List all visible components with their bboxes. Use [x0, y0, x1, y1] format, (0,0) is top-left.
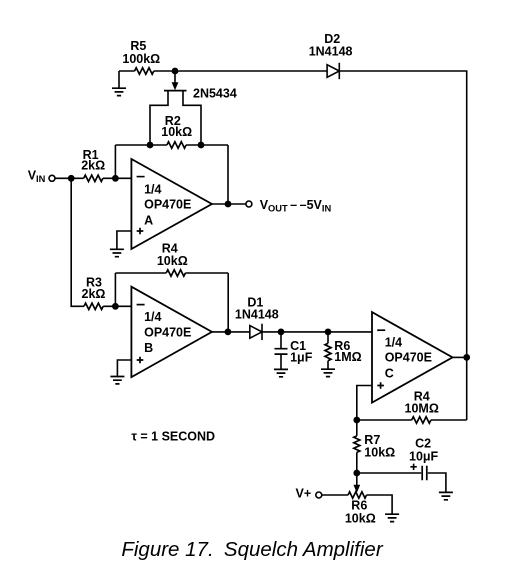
wire op-amp B noninverting input to ground	[117, 360, 131, 377]
ground C2	[439, 492, 453, 499]
svg-text:1N4148: 1N4148	[235, 307, 279, 321]
wire R7 node to C2	[357, 473, 446, 492]
svg-text:10μF: 10μF	[409, 450, 439, 464]
svg-text:100kΩ: 100kΩ	[122, 52, 160, 66]
wire R2 feedback line	[115, 145, 228, 204]
svg-text:10kΩ: 10kΩ	[157, 254, 188, 268]
svg-text:1N4148: 1N4148	[309, 44, 353, 58]
svg-text:τ = 1 SECOND: τ = 1 SECOND	[131, 429, 215, 443]
potentiometer R6 wiper arrow	[356, 473, 358, 486]
wire op-amp C output	[453, 356, 467, 358]
node top rail / gate junction	[172, 68, 179, 75]
resistor R3	[84, 303, 103, 309]
svg-text:OP470E: OP470E	[144, 325, 191, 339]
svg-text:R5: R5	[130, 39, 146, 53]
ground R6	[321, 369, 335, 376]
wire top rail from R5 to D2 and right side down to op-amp C output	[119, 71, 467, 357]
svg-text:VOUT – –5VIN: VOUT – –5VIN	[260, 198, 332, 214]
ground op-amp B	[110, 377, 124, 384]
node VIN branch	[68, 175, 75, 182]
node C1 top	[278, 329, 285, 336]
diode D1 1N4148	[250, 326, 262, 339]
node op-amp B inverting input	[112, 303, 119, 310]
svg-text:1/4: 1/4	[144, 310, 161, 324]
resistor R7 vertical	[356, 420, 358, 473]
ground pot	[385, 514, 399, 521]
node op-amp C output	[463, 354, 470, 361]
svg-text:A: A	[144, 214, 153, 228]
wire op-amp B output to D1 and to op-amp C inverting input	[212, 331, 372, 333]
node op-amp A inverting input	[112, 175, 119, 182]
op-amp U1B 1/4 OP470E	[131, 287, 212, 377]
svg-text:1μF: 1μF	[290, 351, 313, 365]
terminal VIN	[49, 175, 55, 181]
svg-text:VIN: VIN	[28, 169, 46, 185]
resistor R4 10M	[412, 417, 431, 423]
label C2 plus	[410, 464, 416, 470]
wire VIN to R1 to op-amp A inverting input	[55, 177, 131, 179]
terminal V+	[316, 492, 322, 498]
transistor Q1 gate bar	[164, 90, 187, 92]
node op-amp A output	[225, 201, 232, 208]
node R4/R7/op-amp C noninverting	[353, 417, 360, 424]
resistor R5	[135, 68, 154, 74]
svg-text:1MΩ: 1MΩ	[334, 350, 361, 364]
ground op-amp A	[110, 249, 124, 256]
transistor Q1 2N5434 JFET gate lead with arrow	[174, 71, 176, 83]
transistor Q1 channel leads	[150, 91, 201, 145]
svg-text:B: B	[144, 341, 153, 355]
resistor R6 potentiometer body	[348, 492, 366, 498]
svg-text:10kΩ: 10kΩ	[345, 511, 376, 525]
resistor R1	[84, 175, 103, 181]
node R7 bottom	[353, 470, 360, 477]
wire R4 feedback of op-amp B	[115, 273, 228, 332]
capacitor C2	[422, 466, 427, 481]
svg-text:2N5434: 2N5434	[193, 86, 237, 100]
svg-text:2kΩ: 2kΩ	[82, 287, 106, 301]
svg-text:10MΩ: 10MΩ	[405, 401, 439, 415]
wire R4 10M feedback of op-amp C	[357, 357, 467, 420]
diode D2 1N4148	[327, 65, 339, 78]
ground C1	[274, 369, 288, 376]
svg-text:2kΩ: 2kΩ	[81, 159, 105, 173]
svg-text:Figure 17. Squelch Amplifier: Figure 17. Squelch Amplifier	[121, 538, 383, 561]
wire op-amp A output	[212, 203, 246, 205]
node R2 left / JFET source	[147, 142, 154, 149]
capacitor C1	[280, 332, 282, 370]
svg-text:V+: V+	[296, 486, 312, 500]
terminal VOUT	[246, 201, 252, 207]
wire VIN branch down to R3	[71, 178, 131, 306]
ground at R5 left	[118, 71, 120, 88]
svg-text:1/4: 1/4	[385, 336, 402, 350]
svg-text:10kΩ: 10kΩ	[364, 445, 395, 459]
resistor R4 10k	[166, 270, 185, 276]
resistor R6 1M vertical	[327, 332, 329, 369]
node R2 right / JFET drain	[198, 142, 205, 149]
svg-text:10kΩ: 10kΩ	[161, 125, 192, 139]
node R6 top	[325, 329, 332, 336]
wire op-amp C noninverting input down to R7 node	[357, 386, 372, 421]
svg-text:C: C	[385, 367, 394, 381]
wire V+ to pot	[322, 495, 392, 514]
svg-text:OP470E: OP470E	[385, 351, 432, 365]
svg-text:C2: C2	[415, 436, 431, 450]
svg-text:1/4: 1/4	[144, 183, 161, 197]
node op-amp B output	[225, 329, 232, 336]
op-amp U1C 1/4 OP470E	[372, 312, 453, 403]
wire op-amp A noninverting input to ground	[117, 231, 131, 249]
svg-text:OP470E: OP470E	[144, 198, 191, 212]
op-amp U1A 1/4 OP470E	[131, 159, 212, 249]
resistor R2	[167, 142, 186, 148]
